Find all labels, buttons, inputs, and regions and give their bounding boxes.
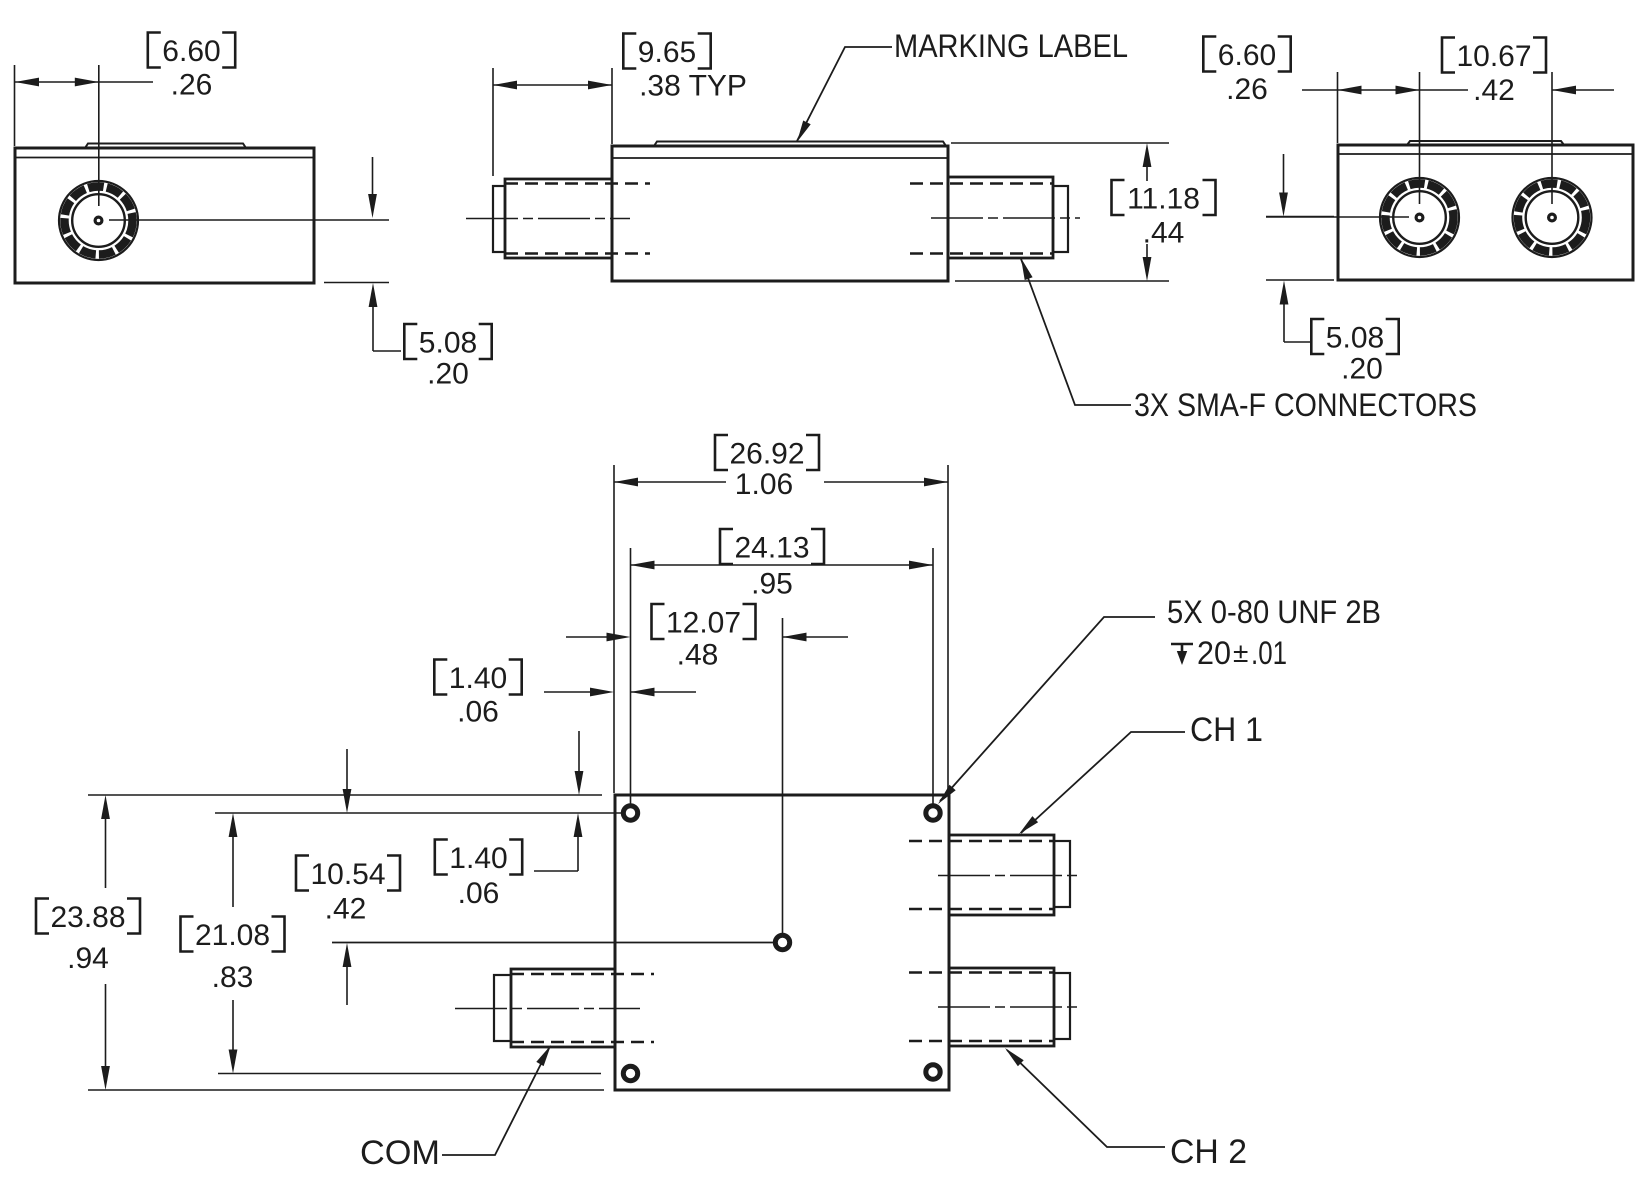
side view right barrel end cap [1053,186,1068,252]
dim text [9.65] / .38 TYP [623,34,710,69]
CH2 hidden thread line lower [909,1040,1054,1042]
COM hidden thread line lower [511,1041,654,1043]
dim text [11.18] / .44 [1112,180,1216,215]
side view left barrel hidden thread line upper [505,182,650,184]
dim text [10.54] / .42 [296,856,400,891]
dim 5.08 leader elbow [373,350,401,352]
3X SMA-F leader line [1021,259,1131,405]
dim text [5.08] / .20 [404,324,491,359]
front view (COM end) body outline [15,148,314,283]
dim 5.08R bottom extension line [1266,279,1334,281]
CH2 barrel end cap [1054,973,1070,1039]
svg-text:.06: .06 [458,877,500,910]
dim 11.18 arrow down [1146,244,1148,258]
COM leader arrowhead [536,1045,551,1066]
end view marking label strip [1407,141,1564,145]
dim 26.92 left extension line [613,465,615,793]
dim 6.60R arrow left [1338,86,1362,95]
dim 24.13 right extension line [932,548,934,804]
dim 23.88 arrow down [105,984,107,1067]
svg-text:.42: .42 [325,892,367,925]
dim 6.60R extension line at CH1 center [1419,72,1421,204]
svg-text:26.92: 26.92 [729,437,804,470]
dim 5.08 down arrow to centerline [372,157,374,196]
dim 10.67 extension line at CH2 center [1551,72,1553,204]
COM leader line [442,1048,549,1155]
dim text [5.08R] / .20 [1311,319,1398,354]
mounting hole center [775,935,789,949]
svg-text:.20: .20 [1341,352,1383,385]
side view right barrel centerline [931,217,1080,219]
dim 9.65 arrow right [588,81,612,90]
svg-text:.44: .44 [1143,216,1185,249]
CH 1 leader arrowhead [1019,816,1038,834]
dim 6.60R dimension line [1302,89,1419,91]
dim 1.40V up arrow with tail [574,813,583,837]
dim 6.60R arrow right [1396,86,1420,95]
CH1 barrel end cap [1054,841,1070,907]
MARKING LABEL leader line [797,47,892,141]
dim 5.08R leader elbow [1284,341,1310,343]
svg-text:CH 2: CH 2 [1170,1133,1247,1171]
dim 5.08R centerline extension [1266,216,1334,218]
svg-text:23.88: 23.88 [50,901,125,934]
dim 26.92 right extension line [947,465,949,793]
svg-text:21.08: 21.08 [195,919,270,952]
CH 2 leader arrowhead [1005,1048,1024,1066]
front view top-face inner edge line [16,157,313,159]
front view marking-label strip on top face [85,144,246,149]
dim 6.60 arrow left [15,78,39,87]
svg-text:COM: COM [360,1134,440,1172]
mounting hole bottom-right [926,1065,940,1079]
ext line through body top edge (row A) [88,794,602,796]
svg-text:.42: .42 [1473,74,1515,107]
dim 9.65 extension line at body left edge [611,68,613,144]
side view marking label strip [654,142,946,147]
dim 23.88 arrow up [101,795,110,819]
side view body outline [612,146,948,281]
dim text [26.92] / 1.06 [715,435,819,470]
dim 6.60R extension line at body left edge [1337,72,1339,143]
MARKING LABEL leader arrowhead [797,121,811,143]
end view (CH1/CH2 end) body outline [1338,145,1633,280]
dim 12.07 left arrow with tail [566,636,607,638]
svg-text:1.06: 1.06 [735,468,793,501]
dim 21.08 arrow down [232,1000,234,1051]
dim 24.13 arrow right [909,561,933,570]
dim 9.65 extension line at barrel tip [492,68,494,176]
dim text [24.13] / .95 [720,529,824,564]
dim 1.40V down arrow [578,731,580,772]
svg-text:5.08: 5.08 [1326,321,1384,354]
COM connector horizontal centerline [109,219,389,221]
svg-text:1.40: 1.40 [449,842,507,875]
svg-text:6.60: 6.60 [162,35,220,68]
mounting hole top-right [926,806,940,820]
CH1 barrel (bottom view) [949,835,1054,915]
dim 26.92 arrow left [614,478,638,487]
ext line through center hole (row C) [332,942,774,944]
CH1 SMA-F connector face [1380,178,1459,257]
dim 11.18 bottom extension line [955,280,1169,282]
COM barrel end cap [494,975,511,1041]
dim 6.60 extension line at connector center [98,65,100,206]
dim 10.54 up arrow [343,943,352,967]
svg-text:12.07: 12.07 [666,606,741,639]
ext line through body bottom edge (row E) [88,1089,604,1091]
dim 5.08 up arrow to body bottom [369,283,378,307]
CH1 hidden thread line lower [909,908,1054,910]
dim text [6.60R] / .26 [1203,37,1290,72]
dim text [6.60] / .26 [148,33,235,68]
dim 24.13 dimension line [631,564,934,566]
dim 1.40H right arrow with tail [631,688,655,697]
svg-text:CH 1: CH 1 [1190,711,1263,749]
dim 1.40H left arrow with tail [544,691,591,693]
svg-text:.95: .95 [751,567,793,600]
ext line through lower hole centers (row D) [218,1073,601,1075]
CH2 SMA-F connector face [1513,178,1592,257]
dim text [12.07] / .48 [652,604,756,639]
CH2 centerline [938,1006,1080,1008]
side view left barrel centerline [466,218,630,220]
thread depth symbol [1171,644,1193,656]
svg-text:.48: .48 [677,638,719,671]
svg-text:.38 TYP: .38 TYP [639,69,747,102]
svg-text:24.13: 24.13 [734,531,809,564]
svg-text:.26: .26 [171,68,213,101]
CH2 barrel (bottom view) [949,968,1054,1046]
dim 26.92 dimension line [614,481,726,483]
ext line through upper hole centers (row B) [215,812,622,814]
3X SMA-F leader arrowhead [1021,258,1033,280]
bottom view body outline [615,795,949,1090]
dim 11.18 arrow up [1143,143,1152,167]
side view top-face inner edge line [613,157,947,159]
dim 5.08R down arrow to centerline [1283,154,1285,194]
CH1 hidden thread line upper [909,840,1054,842]
5X leader line [940,617,1155,801]
COM barrel (bottom view) [511,969,615,1047]
mounting hole bottom-left [623,1066,637,1080]
side view right threaded barrel (CH1) [948,177,1053,258]
dim 24.13 arrow left [631,561,655,570]
CH1 centerline [938,875,1080,877]
svg-text:1.40: 1.40 [449,662,507,695]
dim 10.67 dimension line segment [1420,89,1469,91]
COM SMA-F connector face [59,181,138,260]
dim 24.13 left extension line [630,548,632,804]
COM hidden thread line upper [511,973,654,975]
svg-text:6.60: 6.60 [1218,39,1276,72]
side view left barrel hidden thread line lower [505,252,650,254]
CH 1 leader line [1021,732,1185,833]
dim text [23.88] / .94 [36,899,140,934]
dim 6.60 extension line at body left edge [14,65,16,146]
dim text [1.40H] / .06 [434,660,521,695]
svg-text:5.08: 5.08 [419,326,477,359]
svg-text:.06: .06 [457,695,499,728]
CH2 hidden thread line upper [909,971,1054,973]
svg-text:10.54: 10.54 [310,858,385,891]
svg-text:.01: .01 [1251,635,1287,671]
dim 10.67 arrow and tail [1552,86,1576,95]
dim 9.65 arrow left [493,81,517,90]
svg-text:.94: .94 [67,942,109,975]
svg-text:MARKING LABEL: MARKING LABEL [894,28,1128,64]
dim 12.07 right arrow with tail [783,633,807,642]
svg-text:9.65: 9.65 [638,36,696,69]
dim 10.54 down arrow [346,749,348,790]
dim 26.92 arrow right [924,478,948,487]
side view right barrel hidden thread line lower [910,252,1053,254]
CH 2 leader line [1007,1050,1165,1147]
dim 9.65 dimension line [493,84,612,86]
svg-text:.26: .26 [1226,73,1268,106]
dim 6.60 arrow right [75,78,99,87]
svg-text:±: ± [1233,637,1248,668]
end view top-face inner edge line [1339,153,1632,155]
svg-text:20: 20 [1197,635,1231,671]
dim text [10.67] / .42 [1442,38,1546,73]
svg-text:11.18: 11.18 [1127,182,1200,215]
side view right barrel hidden thread line upper [910,182,1053,184]
svg-text:10.67: 10.67 [1456,40,1531,73]
dim 1.40V leader elbow [534,870,578,872]
dim 21.08 arrow up [229,813,238,837]
side view left barrel end cap [493,186,505,252]
dim 12.07 center-hole extension line [782,618,784,933]
dim text [1.40V] / .06 [435,840,522,875]
dim 5.08R up arrow to body bottom [1280,281,1289,305]
dim 6.60 dimension line [15,81,153,83]
svg-text:3X SMA-F CONNECTORS: 3X SMA-F CONNECTORS [1134,387,1477,423]
side view left threaded barrel (COM) [505,179,612,258]
svg-text:5X 0-80 UNF 2B: 5X 0-80 UNF 2B [1167,594,1381,630]
end view connectors centerline [1266,216,1409,218]
svg-text:.20: .20 [427,357,469,390]
dim text [21.08] / .83 [181,917,285,952]
dim 5.08 bottom extension line [324,282,389,284]
COM centerline (bottom view) [455,1008,640,1010]
dim 11.18 top extension line [951,142,1169,144]
svg-text:.83: .83 [212,961,254,994]
5X leader arrowhead [938,785,956,804]
mounting hole top-left [623,806,637,820]
